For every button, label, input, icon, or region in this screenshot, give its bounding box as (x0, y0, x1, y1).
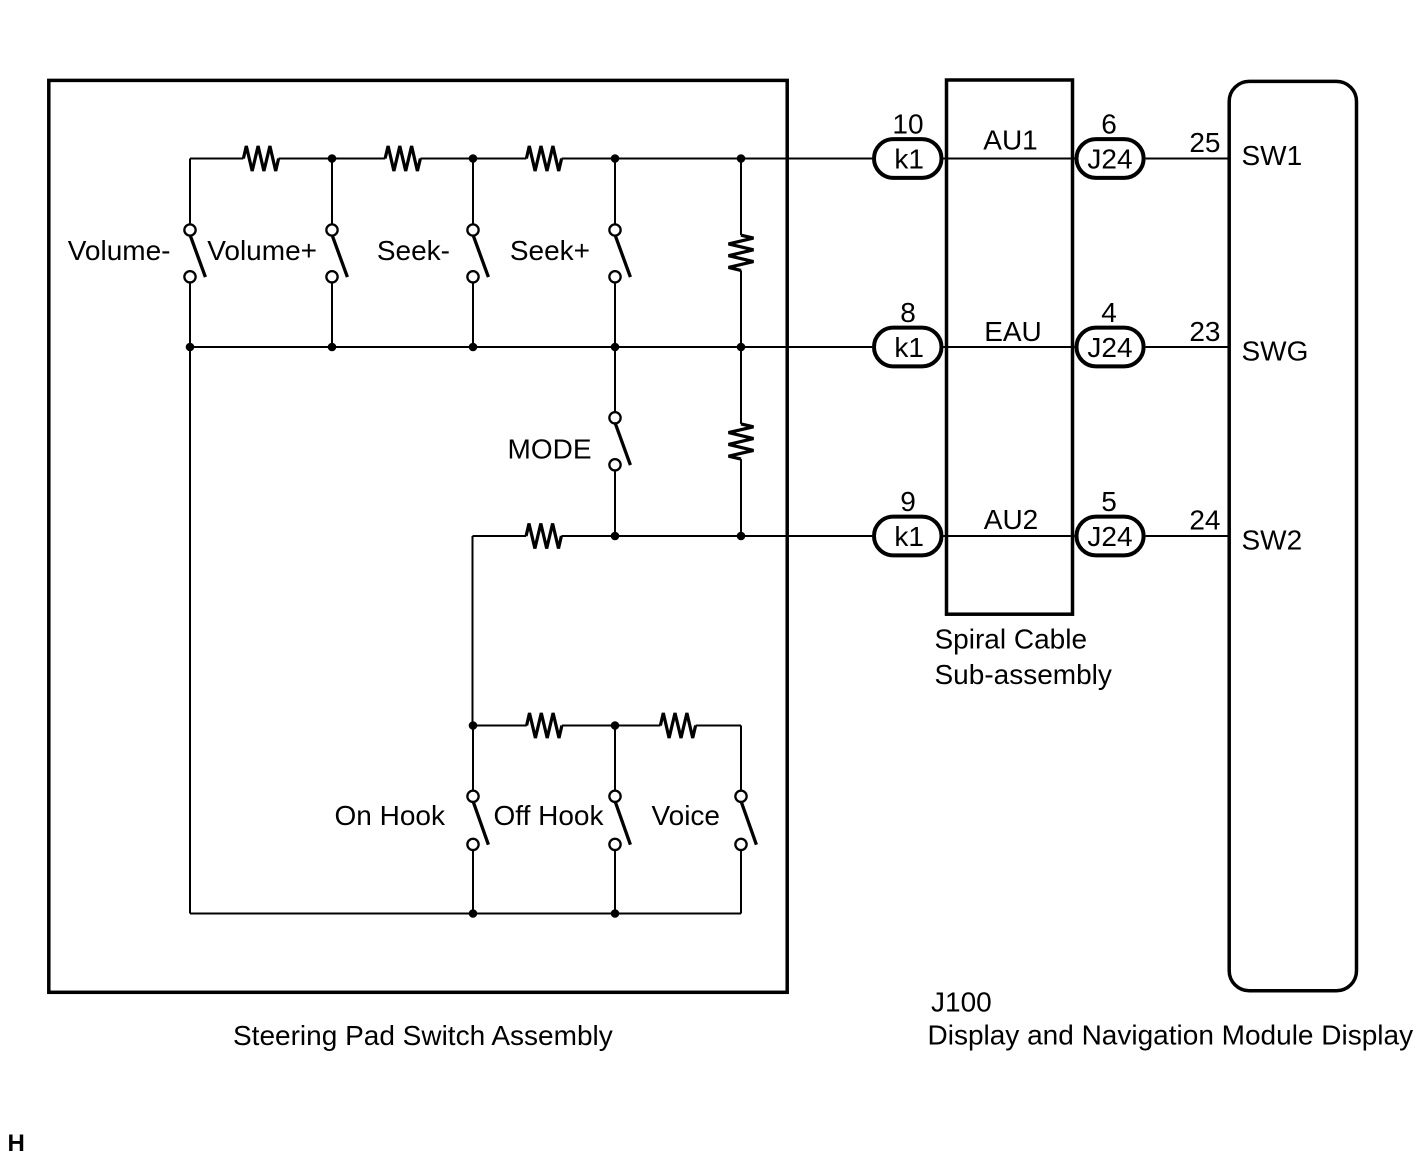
svg-text:6: 6 (1101, 109, 1117, 140)
node junction AU2 row x=741 (737, 532, 746, 541)
wire Off Hook branch lower (614, 850, 616, 913)
switch Volume- (184, 224, 205, 282)
resistor Off Hook series (hook row #1) (527, 713, 562, 738)
node junction EAU bus x=332 (328, 343, 337, 352)
node junction EAU bus x=473 (469, 343, 478, 352)
svg-text:4: 4 (1101, 297, 1117, 328)
svg-text:J24: J24 (1087, 521, 1132, 552)
node junction bottom bus x=473 (469, 909, 478, 918)
node junction row1 x=741 (737, 154, 746, 163)
wire Seek+ branch upper (614, 159, 616, 225)
wire bottom bus (190, 913, 741, 915)
svg-text:J24: J24 (1087, 332, 1132, 363)
wire row1 to vertical resistor 1 (740, 159, 742, 236)
switch Volume+ (326, 224, 347, 282)
wire AU2 left end to resistor (473, 535, 527, 537)
wire AU1 inside spiral cable (944, 158, 1075, 160)
svg-text:Spiral Cable: Spiral Cable (935, 624, 1088, 655)
wire Seek- branch upper (472, 159, 474, 225)
svg-text:H: H (8, 1130, 25, 1157)
node junction EAU bus x=741 (737, 343, 746, 352)
node junction AU2 row x=615 (611, 532, 620, 541)
wire row1 to connector k1 pin10 (562, 158, 872, 160)
svg-text:Sub-assembly: Sub-assembly (935, 659, 1112, 690)
switch Voice (735, 791, 756, 850)
switch On Hook (467, 791, 488, 850)
wire hook row to Voice corner (696, 725, 741, 727)
switch MODE (609, 412, 630, 470)
wire hook row left to resistor (473, 725, 527, 727)
resistor pull-up vertical #1 (729, 235, 754, 270)
node junction EAU bus x=615 (611, 343, 620, 352)
svg-text:EAU: EAU (984, 316, 1042, 347)
wire On Hook branch lower (472, 850, 474, 913)
wire EAU bus to vertical resistor 2 (740, 347, 742, 424)
svg-text:SWG: SWG (1242, 336, 1309, 367)
wire Seek+ branch lower (614, 283, 616, 347)
wire Voice branch upper (740, 726, 742, 791)
wire AU1 J24 to J100 pin25 (1146, 158, 1230, 160)
svg-text:9: 9 (900, 486, 916, 517)
node junction hook row x=473 (469, 721, 478, 730)
wire EAU bus to connector k1 pin8 (190, 346, 872, 348)
wire row1 left end to resistor (190, 158, 243, 160)
svg-text:Volume+: Volume+ (207, 235, 317, 266)
svg-text:k1: k1 (894, 521, 924, 552)
svg-text:Off Hook: Off Hook (494, 800, 605, 831)
resistor Seek- series (row1 #2) (385, 146, 420, 171)
svg-text:Display and Navigation Module: Display and Navigation Module Display (928, 1020, 1414, 1051)
wire vertical resistor 2 to AU2 row (740, 459, 742, 536)
wire EAU J24 to J100 pin23 (1146, 346, 1230, 348)
Spiral Cable Sub-assembly box (947, 80, 1073, 614)
svg-text:AU2: AU2 (984, 504, 1038, 535)
svg-text:k1: k1 (894, 332, 924, 363)
resistor Seek+ series (row1 #3) (526, 146, 561, 171)
connector k1 pin 9 (AU2 row) (874, 517, 942, 556)
wire Volume- branch lower / left bus drop (189, 283, 191, 914)
svg-text:8: 8 (900, 297, 916, 328)
svg-text:AU1: AU1 (983, 125, 1037, 156)
wire MODE branch lower (614, 471, 616, 536)
node junction row1 x=615 (611, 154, 620, 163)
svg-text:Steering Pad Switch Assembly: Steering Pad Switch Assembly (233, 1020, 613, 1051)
wire row1 between resistors 2-3 (420, 158, 526, 160)
wire Volume+ branch lower (331, 283, 333, 347)
svg-text:On Hook: On Hook (335, 800, 446, 831)
wire AU2 to connector k1 pin9 (561, 535, 872, 537)
connector J24 pin 4 (EAU row) (1077, 328, 1144, 367)
connector J24 pin 6 (AU1 row) (1077, 139, 1144, 178)
wire Volume- branch upper (189, 159, 191, 225)
svg-text:23: 23 (1189, 316, 1220, 347)
svg-text:MODE: MODE (508, 434, 592, 465)
Steering Pad Switch Assembly box (49, 80, 787, 992)
wire MODE branch upper (614, 347, 616, 412)
wire EAU inside spiral cable (944, 346, 1075, 348)
wire AU2 inside spiral cable (944, 535, 1075, 537)
svg-text:10: 10 (892, 109, 923, 140)
wire row1 between resistors 1-2 (279, 158, 386, 160)
wire Seek- branch lower (472, 283, 474, 347)
node junction EAU bus x=190 (186, 343, 195, 352)
connector J24 pin 5 (AU2 row) (1077, 517, 1144, 556)
svg-text:J100: J100 (931, 987, 992, 1018)
wire On Hook branch upper (472, 726, 474, 791)
node junction hook row x=615 (611, 721, 620, 730)
wire AU2 corner down to hook row (472, 536, 474, 726)
svg-text:SW1: SW1 (1242, 140, 1303, 171)
resistor AU2 series (526, 524, 561, 549)
svg-text:5: 5 (1101, 486, 1117, 517)
svg-text:Voice: Voice (652, 800, 721, 831)
svg-text:J24: J24 (1087, 144, 1132, 175)
wire vertical resistor 1 to EAU bus (740, 270, 742, 347)
switch Seek+ (609, 224, 630, 282)
J100 Display and Navigation Module Display box (1229, 81, 1356, 990)
wire AU2 J24 to J100 pin24 (1146, 535, 1230, 537)
svg-text:k1: k1 (894, 144, 924, 175)
svg-text:SW2: SW2 (1242, 525, 1303, 556)
svg-text:24: 24 (1189, 505, 1220, 536)
svg-text:25: 25 (1189, 127, 1220, 158)
resistor pull-up vertical #2 (729, 424, 754, 459)
node junction bottom bus x=615 (611, 909, 620, 918)
resistor Volume+ series (row1 #1) (243, 146, 278, 171)
node junction row1 x=332 (328, 154, 337, 163)
connector k1 pin 8 (EAU row) (874, 328, 942, 367)
svg-text:Seek-: Seek- (377, 235, 450, 266)
wire Volume+ branch upper (331, 159, 333, 225)
svg-text:Seek+: Seek+ (510, 235, 590, 266)
switch Off Hook (609, 791, 630, 850)
wire Off Hook branch upper (614, 726, 616, 791)
connector k1 pin 10 (AU1 row) (874, 139, 942, 178)
wire Voice branch lower (740, 850, 742, 913)
wire hook row between resistors (562, 725, 661, 727)
switch Seek- (467, 224, 488, 282)
svg-text:Volume-: Volume- (68, 235, 171, 266)
resistor Voice series (hook row #2) (660, 713, 695, 738)
node junction row1 x=473 (469, 154, 478, 163)
